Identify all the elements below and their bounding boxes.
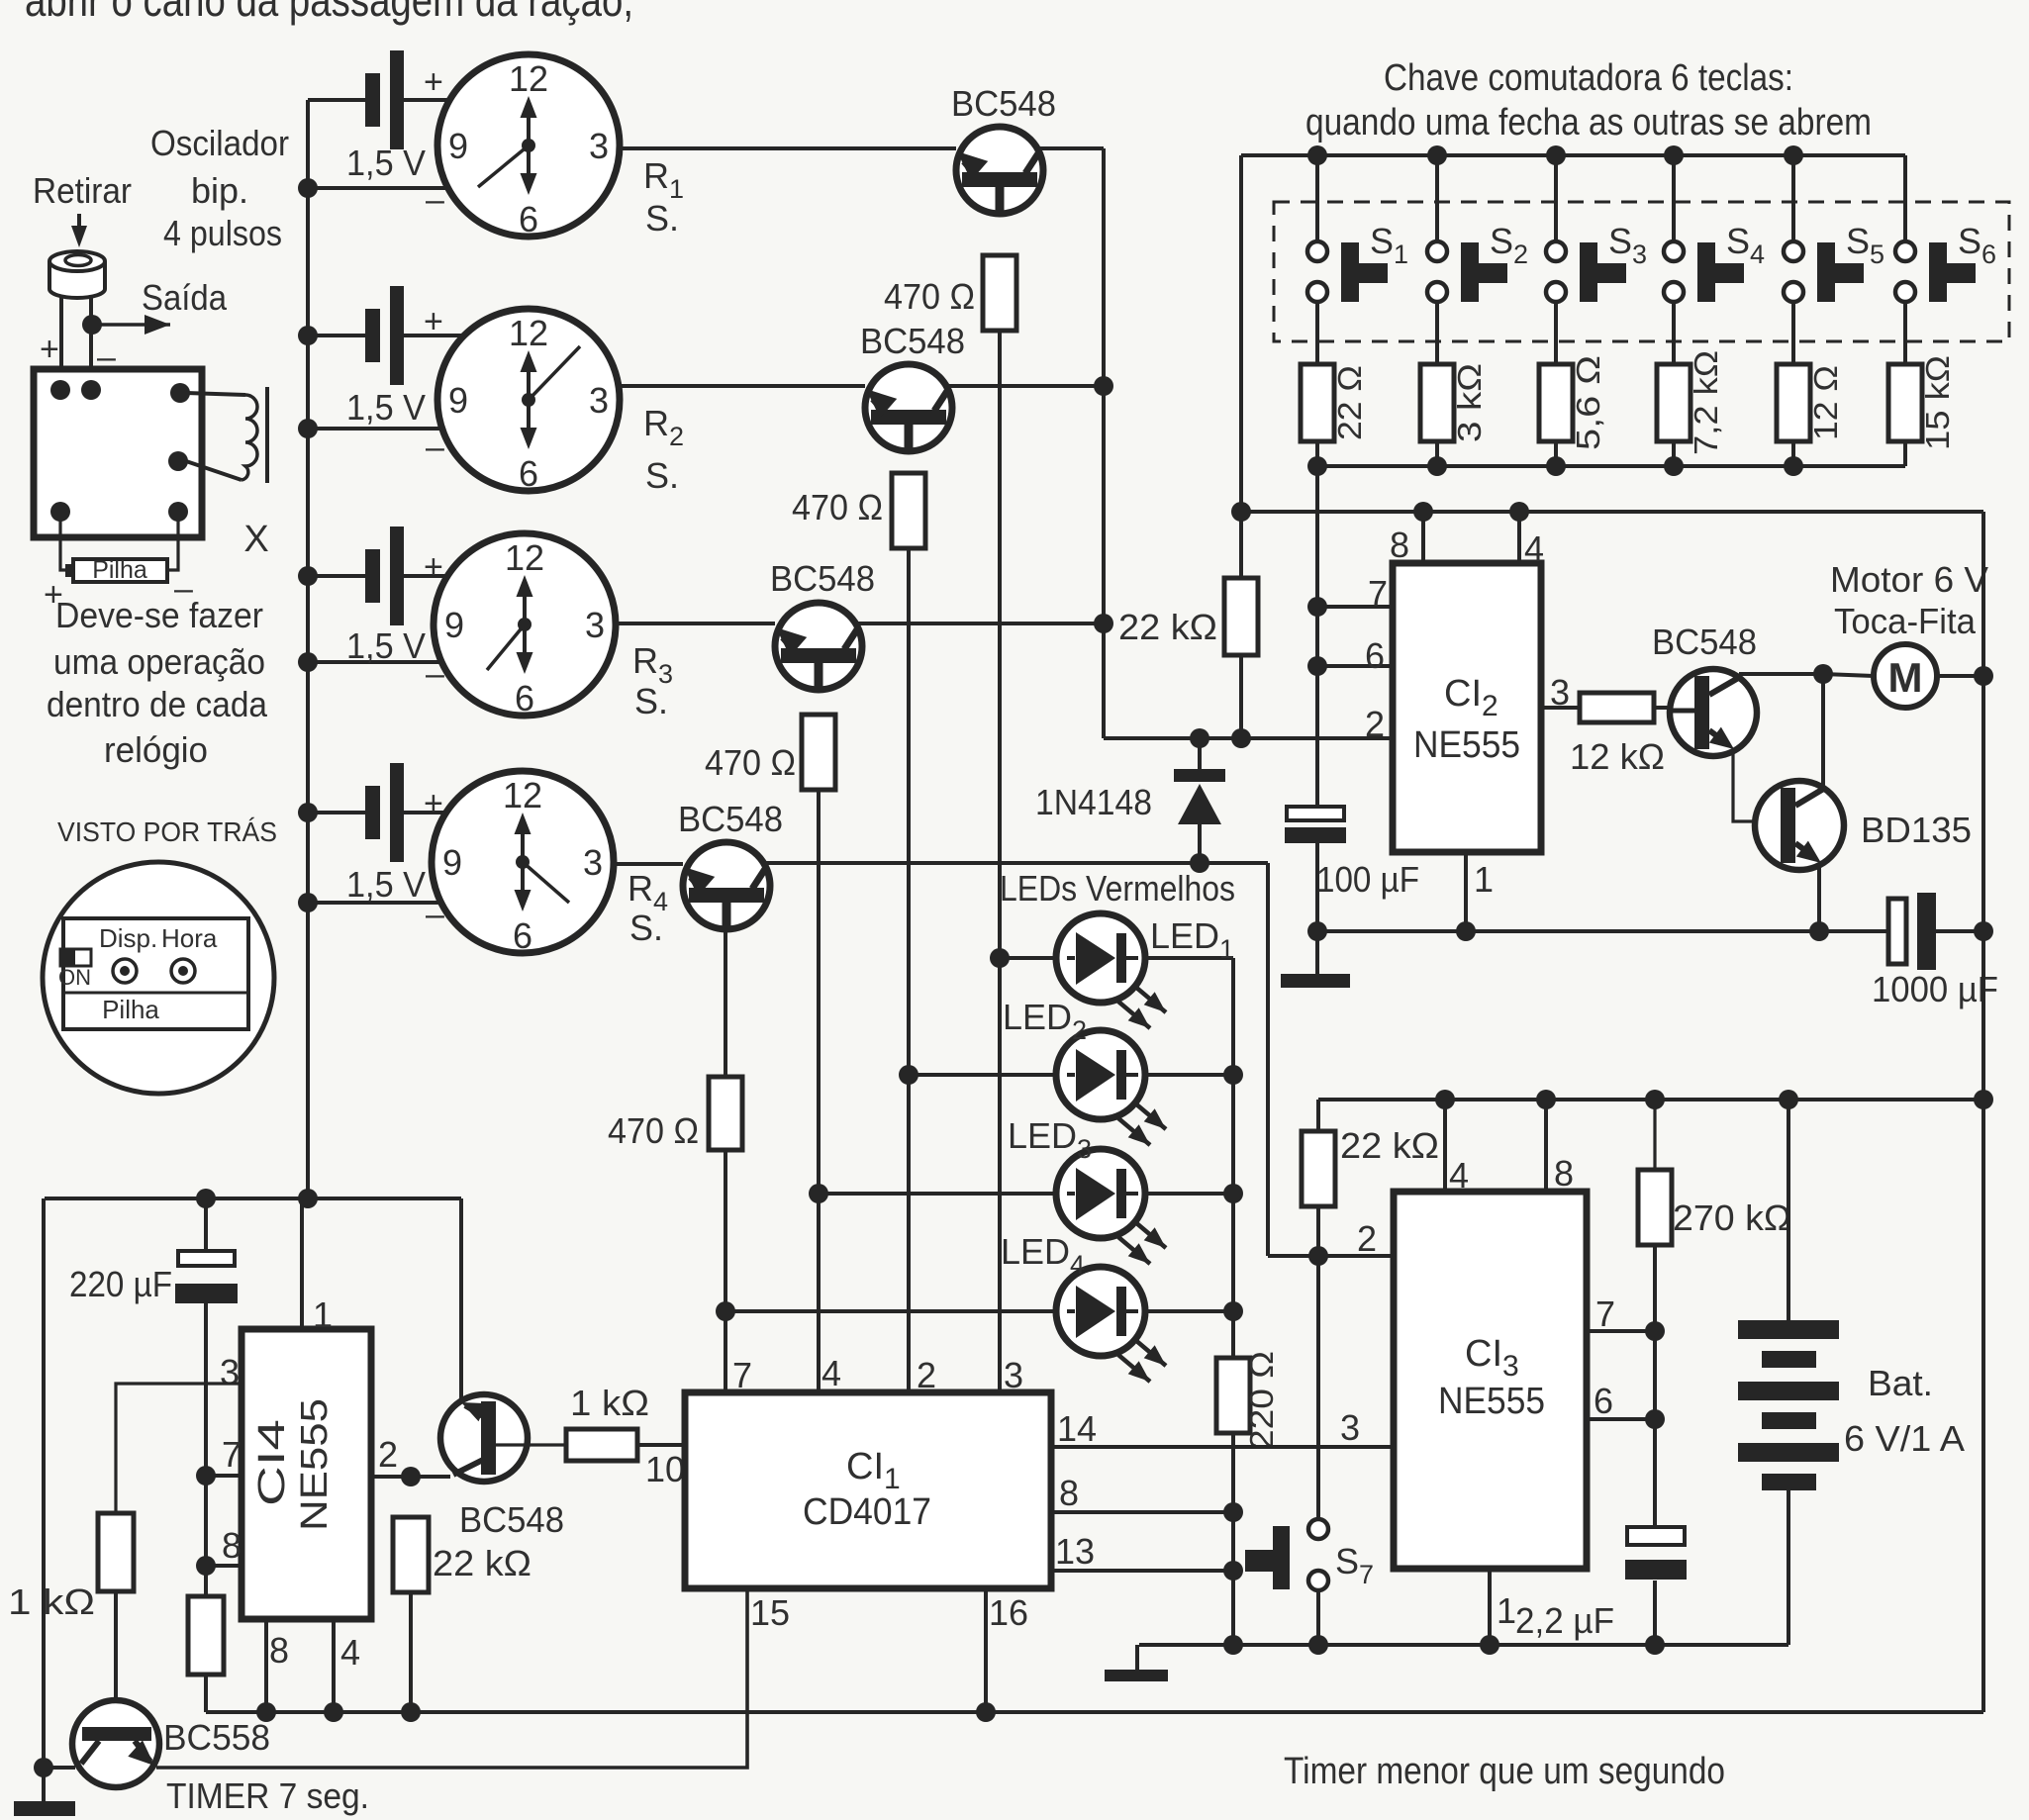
wire 2,2uF to gnd line [1653,1581,1657,1645]
wire motor to right bus [1937,674,1983,678]
svg-text:1: 1 [313,1294,333,1335]
wire 22k CI3 from rail [1316,1100,1320,1131]
pin 8 CI2 [1390,512,1423,565]
junction Q2 collector / column A [1094,376,1113,396]
wire 1k to CD4017 pin10 [637,1443,685,1447]
svg-text:Timer menor que um segundo: Timer menor que um segundo [1284,1751,1725,1792]
wire LED2 cathode to cathode bus [1144,1073,1233,1077]
label R2 S. [643,403,684,496]
junction cathode bus / LED4 [1223,1301,1243,1321]
junction top rail / S1 [1307,145,1327,165]
capacitor 2,2uF [1625,1527,1687,1580]
svg-text:BD135: BD135 [1861,810,1972,850]
svg-text:3: 3 [1004,1355,1023,1395]
wire LED3 anode [819,1192,1057,1196]
svg-text:10: 10 [645,1449,685,1489]
svg-text:BC548: BC548 [770,558,875,599]
resistor 12 Ω (S5) [1777,364,1810,441]
junction S1 column / CI2 pin7 line [1307,597,1327,617]
wire buzzer lead left [59,295,63,390]
pin 1 CI3 [1490,1569,1516,1645]
clock R2 (relogio) [437,309,620,494]
svg-text:BC548: BC548 [951,83,1056,124]
svg-text:22 Ω: 22 Ω [1331,365,1368,440]
svg-text:8: 8 [269,1630,289,1671]
wire BC558 left lead [44,1766,75,1770]
svg-text:2: 2 [1357,1218,1377,1259]
battery B3 1,5 V [365,527,404,625]
junction bus / clock R1 negative wire [298,178,318,198]
LED LED3 [1056,1149,1166,1264]
svg-text:5,6 Ω: 5,6 Ω [1570,355,1606,450]
svg-text:22 kΩ: 22 kΩ [1118,607,1217,647]
pin 7 CI3 [1587,1293,1655,1334]
svg-text:1,5 V: 1,5 V [346,387,426,428]
junction left vertical / BC558 wire [34,1758,53,1777]
wire S4 to resistor [1672,302,1676,364]
junction gnd line / S7 [1308,1635,1328,1655]
svg-text:1000 µF: 1000 µF [1872,969,1998,1009]
wire 220R down to gnd line [1231,1433,1235,1645]
wire switch top rail [1241,153,1905,157]
junction pin2 / 22k [401,1467,421,1486]
IC U4 CI4 NE555 box [242,1329,371,1619]
svg-text:220 µF: 220 µF [69,1264,172,1304]
resistor 3 kΩ (S2) [1420,364,1454,441]
svg-text:8: 8 [1059,1473,1079,1513]
svg-text:3: 3 [589,126,609,166]
note Deve-se fazer uma operacao dentro de cada relogio [47,595,268,770]
wire LED cathode bus vertical [1231,958,1235,1358]
svg-text:3: 3 [589,380,609,421]
wire Q2 base column to CD4017 pin2 [907,548,911,1392]
wire bottom ground bus [206,1710,1983,1714]
svg-text:dentro de cada: dentro de cada [47,684,268,724]
svg-text:6: 6 [513,915,532,956]
wire resistor S4 to bottom rail [1672,441,1676,466]
svg-text:9: 9 [444,605,464,645]
junction top rail / S2 [1427,145,1447,165]
IC U2 CI2 NE555 box [1393,563,1541,852]
junction motor node / BD135 collector [1813,664,1833,684]
wire CI2 pin6 line [1317,664,1393,668]
junction pin2 line / 22k CI3 [1308,1246,1328,1266]
junction rail / CI3 pin8 [1536,1090,1556,1109]
junction Vcc / CI2 pin8 [1413,502,1433,522]
wire battery B4 top (bus to battery) [308,811,365,814]
svg-text:6: 6 [519,199,538,239]
svg-text:12: 12 [509,58,548,99]
svg-text:4: 4 [340,1632,360,1673]
svg-text:X: X [243,519,268,560]
buzzer (piezo) top view [49,251,105,298]
wire bus to clock R1 bottom [308,186,452,190]
battery B2 1,5 V [365,286,404,385]
svg-text:relógio: relógio [104,729,208,770]
clock R1 (relogio) [437,54,620,239]
svg-text:470 Ω: 470 Ω [884,276,975,317]
wire module to pilha right [167,519,178,570]
wire Q1 collector to node column A [1039,146,1104,150]
ground (right section) [1105,1645,1168,1681]
pin 4 CI4 bottom [334,1619,360,1712]
svg-text:+: + [424,63,443,101]
junction ground bus / CI4 pin4 [324,1702,343,1722]
resistor 22k (CI3 pin2) [1302,1131,1335,1206]
resistor 220R (LED chain) [1216,1358,1250,1433]
svg-text:Motor 6 V: Motor 6 V [1830,559,1988,600]
svg-text:6 V/1 A: 6 V/1 A [1844,1418,1965,1459]
wire 1k to BC558 [114,1591,118,1727]
junction rail / 270k [1645,1090,1665,1109]
wire LED1 cathode to cathode bus [1144,956,1233,960]
wire battery B4 to clock R4 [404,811,450,814]
wire Q3 base column to CD4017 pin4 [817,790,821,1392]
svg-text:7: 7 [222,1434,242,1475]
svg-text:6: 6 [515,678,534,718]
svg-text:2: 2 [378,1434,398,1475]
transistor Q3 BC548 [775,603,862,691]
pin 8 CD4017 [1051,1473,1233,1513]
switch S6 [1895,155,1976,302]
wire S3 to resistor [1554,302,1558,364]
wire right supply bus vertical [1981,512,1985,1712]
svg-text:2: 2 [1365,704,1385,744]
wire resistor S2 to bottom rail [1435,441,1439,466]
wire LED2 anode [909,1073,1057,1077]
svg-text:CD4017: CD4017 [803,1491,931,1533]
wire resistor S5 to bottom rail [1791,441,1795,466]
wire CI3 pin2 line [1268,1254,1394,1258]
capacitor 1000uF [1888,893,1936,970]
wire battery B3 to clock R3 [404,574,451,578]
wire BC558 right lead to CD4017 pin15 [156,1588,747,1768]
junction CI2 pin1 / ground wire [1456,921,1476,941]
svg-text:S.: S. [645,198,679,239]
svg-text:7: 7 [1595,1293,1615,1334]
junction bottom rail / S4 resistor [1664,456,1684,476]
svg-text:12: 12 [509,313,548,353]
junction Vcc / CI2 pin4 [1509,502,1529,522]
svg-text:BC558: BC558 [163,1717,270,1758]
resistor 22k (CI4) [393,1517,429,1592]
pin 14 CD4017 [1051,1408,1394,1449]
svg-text:13: 13 [1055,1531,1095,1572]
wire CI2 ground line [1317,929,1888,933]
wire S2 to resistor [1435,302,1439,364]
wire right ground line [1139,1643,1788,1647]
svg-text:470 Ω: 470 Ω [705,742,796,783]
svg-text:22 kΩ: 22 kΩ [1340,1125,1439,1166]
capacitor 220uF [175,1198,238,1303]
wire S6 to resistor [1903,302,1907,364]
svg-text:CI4: CI4 [251,1419,293,1506]
wire battery B2 top (bus to battery) [308,334,365,337]
junction 270k column / pin7 [1645,1321,1665,1341]
svg-text:1: 1 [1474,859,1494,900]
resistor 1k (CI4 pin3 to BC558) [98,1513,134,1591]
wire 12k to Q5 base [1654,706,1673,710]
wire bus to clock R2 bottom [308,427,446,431]
svg-text:16: 16 [989,1592,1028,1633]
pin 1 CI2 [1466,852,1494,931]
resistor 12k (CI2 out) [1580,693,1654,722]
junction Q4 collector / diode D1 anode [1190,853,1209,873]
svg-text:LEDs Vermelhos: LEDs Vermelhos [1000,868,1235,909]
resistor 270k (CI3) [1638,1170,1672,1245]
wire 270k column [1653,1100,1656,1170]
junction bottom rail / S2 resistor [1427,456,1447,476]
svg-text:100 µF: 100 µF [1316,859,1419,900]
wire S5 to resistor [1791,302,1795,364]
label R1 S. [643,155,684,239]
junction bottom rail / S1 resistor [1307,456,1327,476]
wire 22k to pin2 line [1239,655,1243,738]
wire battery B2 to clock R2 [404,334,468,337]
wire CI2 pin2 line [1104,736,1393,740]
wire node column A vertical (Q1/Q2/Q3 collectors) [1102,148,1106,738]
svg-text:1,5 V: 1,5 V [346,625,426,666]
wire Q4 base to resistor [724,929,727,1077]
switch S3 [1546,155,1626,302]
switch S4 [1664,155,1744,302]
svg-text:4: 4 [1449,1155,1469,1196]
pin 8 CI4 bottom [266,1619,289,1712]
svg-text:1,5 V: 1,5 V [346,864,426,905]
svg-text:VISTO POR TRÁS: VISTO POR TRÁS [57,816,277,847]
svg-text:NE555: NE555 [294,1398,336,1531]
junction 220R column / CD4017 pin8 line [1223,1502,1243,1522]
svg-text:Toca-Fita: Toca-Fita [1834,601,1977,641]
transistor Q4 BC548 [683,842,770,930]
pin 16 CD4017 [986,1588,1028,1712]
junction bus / battery B3 top wire [298,566,318,586]
LED LED2 [1056,1030,1166,1145]
svg-text:8: 8 [1390,525,1409,565]
resistor 470R (Q1 base) [983,255,1016,331]
svg-text:S.: S. [634,681,668,721]
svg-text:Bat.: Bat. [1868,1363,1933,1403]
pin 8 CI4 (left) [206,1525,242,1566]
oscillator module box [34,369,202,537]
battery B4 1,5 V [365,763,404,862]
pin 3 CI4 [116,1352,242,1513]
svg-text:+: + [424,303,443,340]
transistor Q8 BC548 (clock driver) [440,1394,566,1482]
junction pin2 line / diode D1 [1190,728,1209,748]
svg-text:9: 9 [442,842,462,883]
junction right bus / motor [1974,666,1993,686]
motor M [1874,644,1937,708]
svg-text:S.: S. [629,908,663,948]
junction top line / 220uF [196,1189,216,1208]
svg-text:M: M [1888,654,1923,701]
wire LED3 cathode to cathode bus [1144,1192,1233,1196]
svg-text:12: 12 [505,537,544,578]
junction bus / clock R2 negative wire [298,419,318,438]
switch S1 [1307,155,1388,302]
svg-text:9: 9 [448,126,468,166]
wire S1 column to CI2 pins 7/6 and 100uF [1315,466,1319,807]
svg-text:6: 6 [1594,1381,1613,1421]
junction bus / clock R3 negative wire [298,652,318,672]
junction supply rail / right bus [1974,1090,1993,1109]
junction bus / battery B2 top wire [298,326,318,345]
pilha cell box [65,556,167,584]
svg-text:3: 3 [583,842,603,883]
wire resistor S1 to bottom rail [1315,441,1319,466]
resistor 470R (Q2 base) [892,473,925,548]
resistor 1k (Q8 base) [566,1429,637,1461]
junction cathode bus / LED3 [1223,1184,1243,1203]
junction bottom rail / S3 resistor [1546,456,1566,476]
svg-text:15: 15 [750,1592,790,1633]
junction cathode bus / LED2 [1223,1065,1243,1085]
svg-text:abrir o cano da passagem da ra: abrir o cano da passagem da ração, [25,0,633,26]
wire bus to clock R3 bottom [308,660,445,664]
ground (bottom left) [14,1801,75,1816]
wire resistor S6 to bottom rail [1903,441,1907,466]
transistor Q7 BC558 [72,1700,159,1787]
resistor 15 kΩ (S6) [1888,364,1922,441]
wire resistor to ground bus [204,1675,208,1712]
resistor (timing, CI4 bottom left) [188,1596,224,1675]
svg-text:14: 14 [1057,1408,1097,1449]
wire clock R3 pin3 to Q3 emitter [616,622,775,625]
junction ground bus / CI4 pin8 [256,1702,276,1722]
svg-text:Saída: Saída [142,277,228,318]
wire 22k to ground bus [409,1592,413,1712]
wire Q8 collector to CI4 top line [459,1198,463,1401]
pin 2 CI4 [371,1434,450,1477]
transistor Q2 BC548 [865,364,952,452]
svg-text:470 Ω: 470 Ω [792,487,883,527]
svg-text:3 kΩ: 3 kΩ [1451,363,1488,442]
junction rail / CI3 pin4 [1435,1090,1455,1109]
svg-text:470 Ω: 470 Ω [608,1110,699,1151]
svg-text:Hora: Hora [161,923,218,953]
wire buzzer lead right [89,295,93,390]
label Oscilador bip. 4 pulsos [150,123,289,253]
svg-text:3: 3 [1340,1407,1360,1448]
junction bottom rail / S5 resistor [1784,456,1803,476]
wire resistor S3 to bottom rail [1554,441,1558,466]
resistor 470R (Q4 base) [709,1077,742,1150]
svg-text:–: – [426,181,444,219]
junction 220uF column / CI4 pin7 [196,1466,216,1485]
junction rail / battery [1779,1090,1798,1109]
arrow saida output [92,323,170,327]
junction BD135 emitter / CI2 ground wire [1809,921,1829,941]
svg-text:bip.: bip. [191,170,248,211]
wire 22k CI3 to pin2 line [1316,1206,1320,1256]
svg-text:Oscilador: Oscilador [150,123,289,163]
svg-text:Pilha: Pilha [102,995,159,1024]
svg-text:2,2 µF: 2,2 µF [1515,1600,1614,1641]
wire Q5 emitter to BD135 base [1733,749,1756,821]
wire supply column left of CI2 (rail to pin2 line) [1239,155,1243,578]
svg-text:BC548: BC548 [459,1499,564,1540]
ground (CI2 / 100uF) [1281,974,1350,988]
wire LED4 cathode to cathode bus [1144,1309,1233,1313]
pin 4 CI3 [1445,1100,1469,1196]
wire Q4 collector to diode node [765,861,1268,865]
junction bus / clock R4 negative wire [298,893,318,912]
svg-text:12: 12 [503,775,542,815]
wire BD135 collector [1821,674,1825,789]
junction right bus / 1000uF [1974,921,1993,941]
wire battery B1 top (bus to battery) [308,98,365,102]
svg-text:7: 7 [732,1355,752,1395]
junction gnd line / 2,2uF [1645,1635,1665,1655]
junction LED1 anode / driver column [990,948,1010,968]
wire Q1 base column to CD4017 pin3 [998,331,1002,1392]
wire Vcc line CI2 (to right bus) [1241,510,1983,514]
junction top rail / S4 [1664,145,1684,165]
wire left supply bus vertical [306,100,310,1198]
transistor Q5 BC548 (motor driver) [1670,669,1757,756]
junction 270k column / pin6 [1645,1409,1665,1429]
junction pin2 line / 22k [1231,728,1251,748]
clock R3 (relogio) [434,533,616,718]
wire CI3 supply rail [1318,1098,1983,1102]
resistor 22 Ω (S1) [1301,364,1334,441]
svg-text:12 Ω: 12 Ω [1807,365,1844,440]
svg-text:NE555: NE555 [1438,1381,1545,1422]
svg-text:2: 2 [917,1355,936,1395]
junction pin16 / ground bus [976,1702,996,1722]
wire clock R4 pin3 to Q4 emitter [614,862,683,866]
svg-text:4 pulsos: 4 pulsos [163,213,282,253]
junction LED3 anode / driver column [809,1184,828,1203]
pin 1 CI4 [302,1198,333,1335]
switch S5 [1784,155,1864,302]
wire LED4 anode [725,1309,1057,1313]
svg-text:uma operação: uma operação [53,641,265,682]
transistor Q1 BC548 [956,127,1043,215]
svg-text:6: 6 [519,453,538,494]
svg-text:1N4148: 1N4148 [1035,782,1152,822]
junction bus / battery B4 top wire [298,803,318,822]
junction 220R column / CD4017 pin13 line [1223,1561,1243,1581]
capacitor 100uF [1285,807,1346,843]
transformer X coil [186,387,267,483]
wire bus to clock R4 bottom [308,901,445,905]
svg-text:BC548: BC548 [860,321,965,361]
wire clock R1 pin3 to Q1 emitter [620,146,956,150]
junction top rail / S5 [1784,145,1803,165]
svg-text:4: 4 [1524,528,1544,569]
wire LED1 anode [1000,956,1057,960]
resistor 470R (Q3 base) [802,715,835,790]
pin 8 CI3 [1546,1100,1574,1194]
diode 1N4148 [1174,738,1225,863]
svg-text:BC548: BC548 [1652,622,1757,662]
wire Q5 collector to motor node [1739,672,1823,676]
junction supply column / Vcc line [1231,502,1251,522]
wire 100uF to ground [1315,843,1319,974]
wire clock R2 pin3 to Q2 emitter [619,384,865,388]
wire 220uF column down [204,1303,208,1596]
wire switch bottom rail [1317,464,1905,468]
svg-text:1 kΩ: 1 kΩ [570,1383,649,1423]
wire battery B1 to clock R1 [404,98,453,102]
wire Q2 collector [947,384,1104,388]
LED LED1 [1056,913,1166,1028]
junction S1 column / CI2 pin6 line [1307,656,1327,676]
svg-text:S.: S. [645,455,679,496]
LED LED4 [1056,1267,1166,1382]
